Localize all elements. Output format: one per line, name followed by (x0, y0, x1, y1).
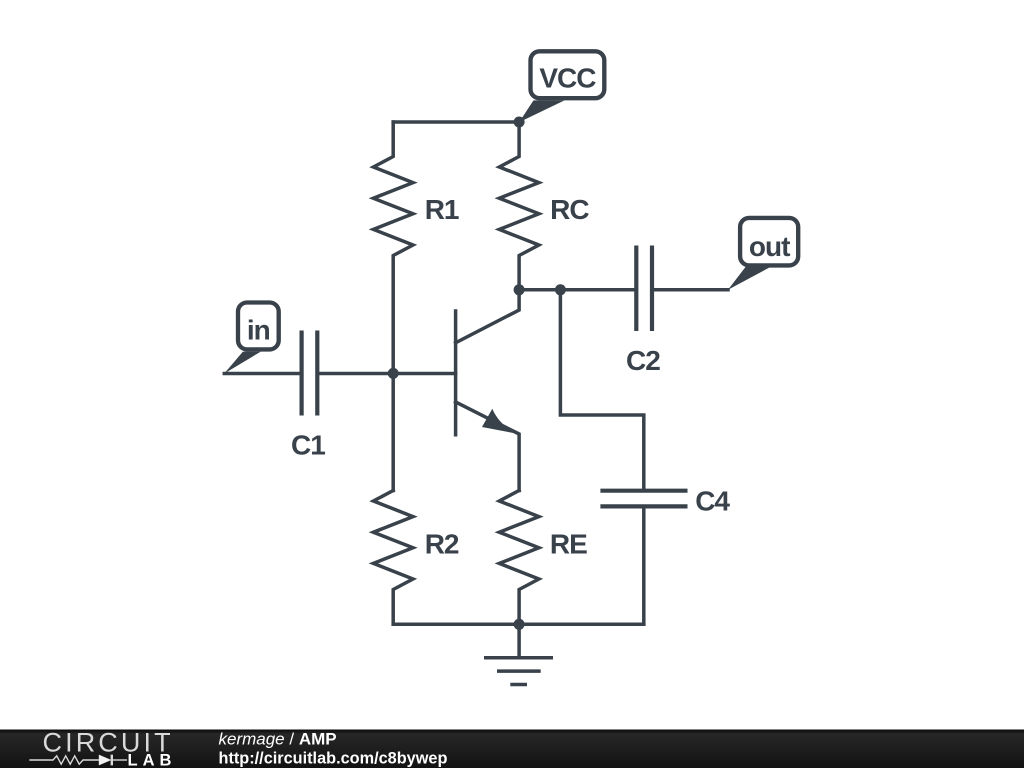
wire bottom rail (393, 623, 644, 627)
wire top rail (393, 120, 519, 124)
capacitor C2 (636, 246, 652, 332)
net label in (224, 303, 278, 374)
resistor R2 (373, 491, 413, 625)
svg-text:R1: R1 (425, 194, 459, 225)
junction dot base node (388, 368, 399, 379)
svg-text:R2: R2 (425, 528, 459, 559)
junction dot output branch (555, 284, 566, 295)
svg-text:LAB: LAB (128, 752, 177, 768)
wire bypass branch (560, 290, 643, 491)
svg-text:kermage / AMP: kermage / AMP (219, 730, 337, 749)
footer bar (0, 730, 1024, 768)
resistor RE (499, 491, 539, 625)
wire C4 to rail (642, 506, 646, 624)
svg-text:C1: C1 (291, 429, 325, 460)
ground (484, 624, 553, 684)
svg-text:RE: RE (550, 528, 587, 559)
junction dot VCC rail (514, 117, 525, 128)
junction dot collector (514, 284, 525, 295)
resistor R1 (373, 122, 413, 491)
CircuitLab logo symbol (29, 755, 127, 766)
transistor Q1 (456, 290, 519, 491)
net label VCC (519, 51, 604, 122)
wire C2 to out (652, 288, 728, 292)
net label out (728, 218, 798, 290)
capacitor C4 (600, 491, 687, 507)
svg-text:in: in (247, 314, 270, 345)
resistor RC (499, 122, 539, 290)
capacitor C1 (302, 331, 318, 416)
junction dot ground (514, 619, 525, 630)
svg-text:C4: C4 (695, 486, 730, 517)
wire collector row (519, 288, 636, 292)
svg-text:VCC: VCC (539, 63, 596, 94)
svg-text:C2: C2 (626, 345, 660, 376)
svg-text:out: out (749, 231, 790, 262)
svg-text:RC: RC (550, 194, 589, 225)
wire in to C1 (224, 372, 301, 376)
wire C1 to base (317, 372, 455, 376)
svg-text:http://circuitlab.com/c8bywep: http://circuitlab.com/c8bywep (219, 750, 448, 768)
